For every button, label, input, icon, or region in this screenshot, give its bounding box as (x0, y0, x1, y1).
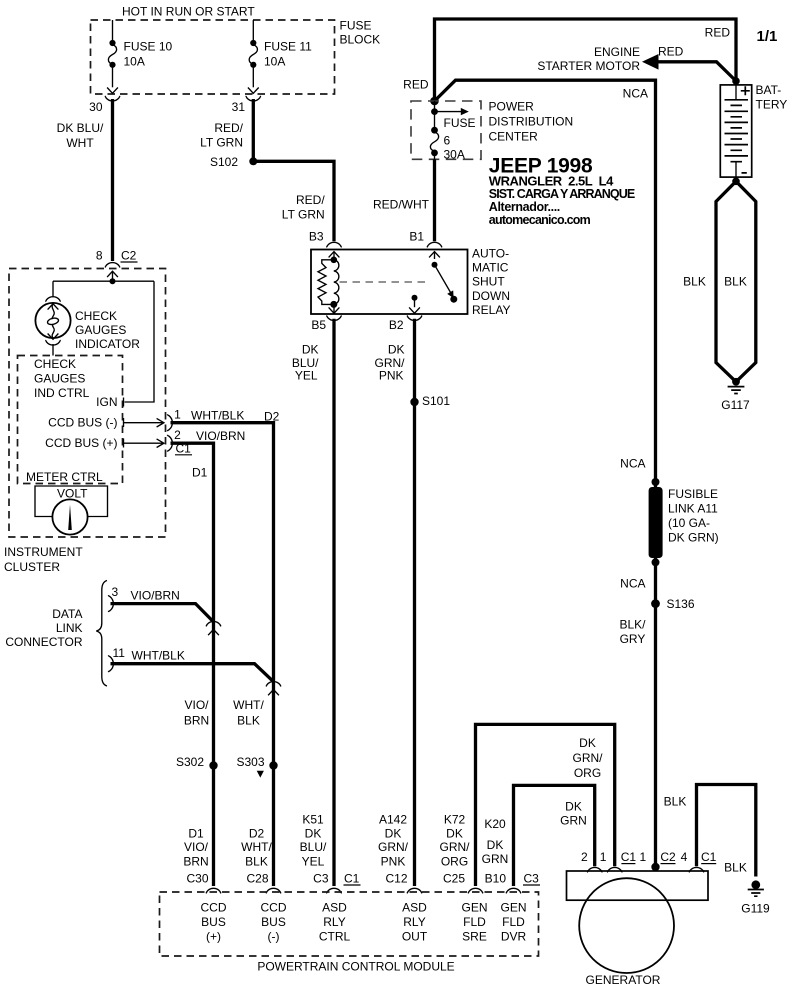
fuse F10 feed stub (112, 20, 114, 43)
fuse 6 (430, 116, 475, 162)
svg-text:C28: C28 (246, 872, 268, 886)
svg-text:BLOCK: BLOCK (340, 33, 381, 47)
battery negative cable loom BLK (716, 181, 756, 381)
battery negative node (732, 178, 740, 186)
svg-text:30: 30 (89, 100, 103, 114)
svg-text:LINK: LINK (56, 621, 83, 635)
svg-text:WHT/: WHT/ (233, 698, 264, 712)
fusible link node top (652, 478, 660, 486)
wire DK BLU/WHT from fuse 10 to instrument cluster C2 (111, 99, 114, 261)
svg-text:DK: DK (302, 343, 319, 357)
wire RED/WHT from PDC to relay B1 (433, 159, 436, 241)
svg-text:DK: DK (487, 838, 504, 852)
svg-text:FUSIBLE: FUSIBLE (668, 487, 718, 501)
svg-text:NCA: NCA (620, 456, 645, 470)
svg-text:CHECK: CHECK (75, 309, 117, 323)
svg-text:C1: C1 (621, 850, 637, 864)
relay coil node top (331, 257, 338, 264)
fusible link node bottom (652, 558, 660, 566)
svg-text:POWER: POWER (489, 100, 535, 114)
connector 31 arrow (248, 88, 259, 94)
svg-text:FUSE 11: FUSE 11 (264, 40, 312, 54)
svg-text:ORG: ORG (574, 766, 601, 780)
svg-text:B1: B1 (409, 230, 424, 244)
wire VIO/BRN from DLC pin 3 (111, 604, 214, 622)
svg-text:GRN/: GRN/ (378, 840, 409, 854)
wire cluster internal bus (53, 281, 154, 402)
svg-text:WHT: WHT (66, 136, 94, 150)
relay B5 pin arrow (333, 306, 335, 313)
svg-text:RED: RED (705, 26, 731, 40)
PCM connector domes (206, 888, 221, 893)
svg-text:ASD: ASD (402, 901, 427, 915)
svg-text:CONNECTOR: CONNECTOR (5, 635, 82, 649)
svg-text:GRN: GRN (482, 852, 509, 866)
svg-text:DK: DK (385, 827, 402, 841)
powertrain control module dashed box (160, 892, 539, 956)
svg-text:K51: K51 (302, 813, 324, 827)
PDC bus arrow (437, 111, 461, 113)
svg-text:VIO/BRN: VIO/BRN (131, 589, 180, 603)
svg-text:S102: S102 (210, 155, 238, 169)
svg-text:TERY: TERY (756, 98, 788, 112)
svg-text:K72: K72 (444, 813, 466, 827)
svg-text:RED/: RED/ (214, 121, 243, 135)
svg-text:B3: B3 (309, 230, 324, 244)
svg-text:SIST. CARGA Y ARRANQUE: SIST. CARGA Y ARRANQUE (489, 187, 635, 201)
connector 30 arrow (107, 88, 118, 94)
svg-text:K20: K20 (484, 817, 506, 831)
svg-text:BRN: BRN (183, 855, 208, 869)
starter motor arrow (642, 54, 659, 70)
svg-text:A142: A142 (379, 813, 407, 827)
inline connector on WHT/BLK wire (266, 682, 281, 687)
CCD BUS (-) arrow (124, 418, 164, 427)
svg-text:OUT: OUT (402, 930, 428, 944)
svg-text:CCD: CCD (201, 901, 227, 915)
ground G117 (728, 378, 745, 394)
svg-text:INSTRUMENT: INSTRUMENT (4, 545, 83, 559)
svg-text:2: 2 (174, 428, 181, 442)
check gauges ind ctrl dashed box (18, 356, 123, 484)
CCD BUS (+) arrow (124, 439, 164, 448)
svg-text:BLU/: BLU/ (300, 840, 327, 854)
svg-text:VIO/: VIO/ (184, 840, 209, 854)
svg-text:DISTRIBUTION: DISTRIBUTION (489, 115, 574, 129)
svg-text:DK: DK (565, 800, 582, 814)
automatic shut down relay box (311, 250, 468, 315)
generator C2 node (651, 863, 659, 871)
svg-text:10A: 10A (124, 55, 145, 69)
lamp bottom connector cup (45, 340, 60, 345)
svg-text:POWERTRAIN CONTROL MODULE: POWERTRAIN CONTROL MODULE (257, 960, 454, 974)
svg-text:METER CTRL: METER CTRL (26, 470, 103, 484)
svg-text:GRY: GRY (620, 632, 646, 646)
svg-text:C3: C3 (524, 872, 540, 886)
fuse block dashed box (91, 20, 335, 94)
svg-text:BLK/: BLK/ (619, 617, 646, 631)
arrow under S303 (257, 771, 264, 778)
connector 31 cup (246, 96, 261, 101)
splice S303 (269, 761, 277, 769)
PDC bus node (431, 108, 438, 115)
svg-text:BRN: BRN (184, 714, 209, 728)
svg-text:C2: C2 (121, 249, 137, 263)
svg-text:STARTER MOTOR: STARTER MOTOR (537, 59, 640, 73)
svg-text:B2: B2 (389, 318, 404, 332)
lamp top connector dome (45, 297, 60, 302)
svg-text:S101: S101 (422, 394, 450, 408)
svg-text:CCD: CCD (261, 901, 287, 915)
svg-text:GRN/: GRN/ (573, 751, 604, 765)
svg-text:BLK: BLK (683, 275, 706, 289)
svg-text:BLK: BLK (724, 861, 747, 875)
svg-text:CCD BUS (+): CCD BUS (+) (45, 436, 117, 450)
svg-text:RED/: RED/ (296, 193, 325, 207)
svg-text:PNK: PNK (379, 369, 404, 383)
wire DK GRN from PCM C3 to generator 2 (514, 785, 595, 886)
wire DK GRN/PNK from relay B2 to PCM C12 (413, 319, 416, 886)
svg-text:C12: C12 (385, 872, 407, 886)
svg-text:CTRL: CTRL (319, 930, 351, 944)
fuse F11 (249, 40, 312, 69)
battery (720, 85, 751, 177)
DLC pin 3 connector cup (108, 595, 113, 612)
svg-text:FLD: FLD (502, 915, 525, 929)
relay switch contact (450, 296, 457, 303)
svg-text:G119: G119 (741, 902, 770, 916)
wire BLK from generator 4 to G119 (697, 785, 756, 877)
inline connector on VIO/BRN wire (206, 621, 221, 626)
svg-text:DK BLU/: DK BLU/ (57, 121, 104, 135)
wire DK BLU/YEL from relay B5 to PCM C3 (332, 319, 335, 886)
svg-text:DK: DK (388, 343, 405, 357)
wire lamp to check gauges ctrl (52, 344, 54, 356)
battery positive node (732, 77, 740, 85)
svg-text:FUSE: FUSE (340, 19, 372, 33)
svg-text:8: 8 (96, 249, 103, 263)
svg-text:YEL: YEL (295, 369, 318, 383)
voltmeter wiring staple (35, 486, 108, 517)
svg-text:30A: 30A (444, 148, 465, 162)
svg-text:FLD: FLD (463, 915, 486, 929)
svg-text:1: 1 (639, 850, 646, 864)
svg-text:6: 6 (444, 134, 451, 148)
svg-text:HOT IN RUN OR START: HOT IN RUN OR START (122, 5, 255, 19)
svg-text:automecanico.com: automecanico.com (489, 213, 591, 227)
svg-text:SRE: SRE (462, 930, 487, 944)
wire VIO/BRN from cluster pin2 to PCM C30 (171, 443, 214, 886)
svg-text:CENTER: CENTER (489, 130, 539, 144)
svg-text:GEN: GEN (461, 901, 487, 915)
svg-text:DK: DK (446, 827, 463, 841)
svg-text:IGN: IGN (96, 395, 117, 409)
svg-text:GENERATOR: GENERATOR (586, 973, 661, 987)
relay switch pivot (432, 262, 438, 268)
svg-text:DK: DK (305, 827, 322, 841)
svg-text:(+): (+) (206, 930, 221, 944)
relay coil (318, 260, 334, 305)
relay B1 pin arrow (429, 252, 440, 258)
svg-text:NCA: NCA (620, 576, 645, 590)
svg-text:DOWN: DOWN (472, 289, 510, 303)
svg-text:ENGINE: ENGINE (594, 45, 640, 59)
svg-text:3: 3 (112, 585, 119, 599)
svg-text:GEN: GEN (500, 901, 526, 915)
wire DK GRN/ORG from PCM C25 to generator 1 (476, 724, 615, 886)
fuse F10 output wire to connector 30 (112, 65, 114, 87)
svg-text:B5: B5 (311, 318, 326, 332)
svg-text:BUS: BUS (201, 915, 226, 929)
svg-text:1: 1 (600, 850, 607, 864)
svg-text:WHT/BLK: WHT/BLK (132, 649, 185, 663)
svg-text:D2: D2 (249, 827, 265, 841)
relay B3 connector dome (326, 242, 341, 247)
svg-text:CLUSTER: CLUSTER (4, 560, 60, 574)
svg-text:11: 11 (113, 646, 126, 660)
wire fuse6 to box edge (434, 153, 436, 159)
fuse F11 output wire to connector 31 (252, 65, 254, 87)
svg-text:C25: C25 (443, 872, 465, 886)
svg-text:MATIC: MATIC (472, 261, 509, 275)
svg-text:DK GRN): DK GRN) (668, 531, 719, 545)
svg-text:DK: DK (579, 736, 596, 750)
svg-text:LINK A11: LINK A11 (668, 502, 718, 516)
svg-text:DVR: DVR (501, 930, 527, 944)
relay B2 pin arrow (414, 298, 416, 308)
svg-text:INDICATOR: INDICATOR (75, 337, 140, 351)
CCD BUS (+) cup connector (167, 435, 172, 452)
relay switch blade (435, 265, 451, 293)
svg-text:RLY: RLY (323, 915, 345, 929)
DLC pin 11 connector cup (108, 655, 113, 672)
svg-text:G117: G117 (721, 398, 750, 412)
relay B5 cup connector (326, 316, 341, 321)
svg-text:CCD BUS (-): CCD BUS (-) (48, 416, 117, 430)
relay B3 pin arrow (329, 252, 340, 258)
svg-text:GRN/: GRN/ (440, 840, 471, 854)
svg-text:C2: C2 (660, 850, 676, 864)
ground G119 (748, 880, 764, 896)
wire WHT/BLK from DLC pin 11 (111, 664, 274, 682)
check gauges indicator lamp (35, 303, 70, 339)
wire NCA to fusible link (435, 80, 656, 864)
fuse F11 feed stub (252, 20, 254, 43)
svg-text:C3: C3 (313, 872, 329, 886)
svg-text:PNK: PNK (381, 855, 406, 869)
splice S302 (209, 761, 217, 769)
svg-text:NCA: NCA (623, 87, 648, 101)
relay B1 connector dome (427, 242, 442, 247)
svg-text:DATA: DATA (52, 607, 82, 621)
svg-text:(-): (-) (268, 930, 280, 944)
voltmeter VOLT (52, 499, 87, 534)
svg-text:1: 1 (174, 408, 181, 422)
svg-text:31: 31 (232, 100, 246, 114)
wire RED/LT GRN from S102 to relay B3 (253, 161, 334, 241)
svg-text:VIO/BRN: VIO/BRN (196, 429, 245, 443)
svg-text:VOLT: VOLT (57, 487, 88, 501)
svg-text:(10 GA-: (10 GA- (668, 516, 710, 530)
svg-text:BLK: BLK (245, 855, 268, 869)
svg-text:IND CTRL: IND CTRL (34, 386, 90, 400)
relay link dashed line (340, 281, 430, 283)
svg-text:4: 4 (681, 850, 688, 864)
power distribution center top node (430, 97, 439, 106)
svg-text:S302: S302 (176, 755, 204, 769)
svg-text:Alternador....: Alternador.... (489, 200, 560, 214)
wire RED/LT GRN from fuse 11 to S102 (252, 99, 255, 161)
power distribution center dashed box (411, 101, 481, 159)
svg-text:GRN: GRN (560, 814, 587, 828)
splice S136 (651, 599, 660, 608)
svg-text:RED: RED (658, 45, 684, 59)
connector C2 dome (105, 263, 120, 268)
wire PDC internal (434, 101, 436, 130)
svg-text:GAUGES: GAUGES (75, 323, 126, 337)
svg-text:AUTO-: AUTO- (472, 246, 509, 260)
svg-text:FUSE 10: FUSE 10 (124, 40, 173, 54)
svg-text:SHUT: SHUT (472, 275, 505, 289)
svg-text:S303: S303 (236, 755, 264, 769)
svg-text:10A: 10A (264, 55, 285, 69)
generator connector domes (587, 867, 602, 872)
svg-text:C30: C30 (186, 872, 208, 886)
fusible link A11 (649, 487, 663, 558)
junction node in cluster (110, 278, 116, 284)
svg-text:WHT/BLK: WHT/BLK (191, 409, 244, 423)
svg-text:RLY: RLY (403, 915, 425, 929)
svg-text:VIO/: VIO/ (184, 698, 209, 712)
svg-text:CHECK: CHECK (34, 357, 76, 371)
relay B2 cup connector (407, 316, 422, 321)
relay coil node bottom (330, 301, 337, 308)
svg-text:BUS: BUS (261, 915, 286, 929)
svg-text:1/1: 1/1 (757, 28, 778, 45)
connector 30 cup (105, 96, 120, 101)
relay B2 contact (412, 295, 418, 301)
generator (567, 871, 709, 973)
svg-text:S136: S136 (667, 597, 695, 611)
svg-text:LT GRN: LT GRN (200, 136, 243, 150)
wire RED main feed (435, 19, 737, 101)
svg-text:RED: RED (403, 78, 429, 92)
svg-text:D1: D1 (192, 465, 208, 479)
svg-text:GAUGES: GAUGES (34, 372, 85, 386)
svg-text:2: 2 (581, 850, 588, 864)
svg-text:B10: B10 (485, 872, 507, 886)
splice node S102 (249, 157, 257, 165)
svg-text:FUSE: FUSE (444, 116, 476, 130)
svg-text:ASD: ASD (322, 901, 347, 915)
fuse F10 (108, 40, 172, 69)
svg-text:BAT-: BAT- (756, 83, 782, 97)
data link connector brace (96, 581, 107, 687)
svg-text:ORG: ORG (441, 855, 468, 869)
svg-text:RELAY: RELAY (472, 303, 510, 317)
instrument cluster dashed box (9, 269, 166, 538)
svg-text:WHT/: WHT/ (241, 840, 272, 854)
svg-text:BLK: BLK (724, 275, 747, 289)
svg-text:C1: C1 (344, 872, 360, 886)
svg-text:LT GRN: LT GRN (282, 208, 325, 222)
wire WHT/BLK from cluster pin1 to PCM C28 (171, 423, 274, 886)
svg-text:RED/WHT: RED/WHT (373, 198, 430, 212)
svg-text:YEL: YEL (302, 855, 325, 869)
svg-text:BLK: BLK (664, 795, 687, 809)
connector C2 arrow inside cluster (107, 271, 118, 277)
splice S101 (410, 398, 418, 406)
svg-text:BLK: BLK (237, 714, 260, 728)
svg-text:D1: D1 (188, 827, 204, 841)
svg-text:C1: C1 (701, 850, 717, 864)
CCD BUS (-) cup connector (167, 414, 172, 431)
